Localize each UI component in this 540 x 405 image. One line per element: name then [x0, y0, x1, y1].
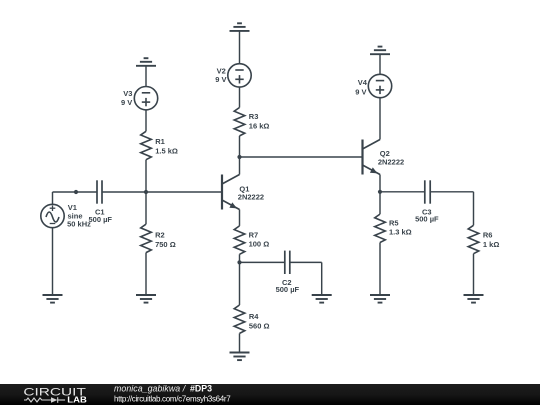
svg-text:750 Ω: 750 Ω [155, 240, 176, 249]
voltage source V2 [228, 64, 251, 87]
label R7 100 [249, 231, 270, 249]
svg-text:100 Ω: 100 Ω [249, 239, 270, 248]
transistor Q2 [363, 140, 381, 175]
wire corner down to R6 [473, 192, 475, 226]
label R6 1k [483, 231, 499, 250]
wire R6 to ground [473, 254, 475, 295]
capacitor C2 [285, 251, 290, 274]
label R5 1.3k [389, 218, 412, 236]
node junction at input [74, 190, 78, 194]
svg-text:R4: R4 [249, 312, 259, 321]
svg-text:R6: R6 [483, 231, 493, 240]
wire node D to R5 [379, 192, 381, 214]
wire row A junction to R2 [145, 192, 147, 224]
svg-text:R1: R1 [155, 137, 165, 146]
wire V2 to R3 [239, 87, 241, 107]
svg-text:500 µF: 500 µF [89, 215, 113, 224]
capacitor C3 [425, 180, 430, 203]
svg-text:#DP3: #DP3 [190, 383, 212, 393]
svg-text:9 V: 9 V [215, 75, 226, 84]
resistor R6 [468, 225, 479, 253]
ground below R6 [464, 295, 484, 303]
transistor Q1 [222, 175, 240, 210]
svg-text:V3: V3 [123, 89, 132, 98]
wire R4 to ground [239, 333, 241, 352]
wire node C to C2 [240, 261, 285, 263]
wire V1 bottom to ground [52, 228, 54, 295]
wire Q1 emitter to R7 [239, 210, 241, 226]
label V1 sine 50 kHz [67, 203, 91, 229]
label R1 1.5k [155, 137, 178, 155]
voltage source V3 [134, 87, 157, 110]
svg-text:560 Ω: 560 Ω [249, 321, 270, 330]
svg-text:R2: R2 [155, 231, 165, 240]
svg-text:9 V: 9 V [121, 98, 132, 107]
wire row A: C1 to Q1 base [102, 191, 222, 193]
label C2 500 uF [276, 278, 300, 294]
voltage source V4 [368, 74, 391, 97]
CircuitLab logo resistor-diode squiggle [24, 397, 65, 403]
label Q1 2N2222 [238, 185, 264, 202]
wire V3 to R1 [145, 110, 147, 131]
capacitor C1 [97, 180, 102, 203]
svg-text:1.5 kΩ: 1.5 kΩ [155, 146, 178, 155]
wire C3 to corner [430, 191, 473, 193]
wire R1 to row A junction [145, 160, 147, 192]
sine source V1 [41, 204, 64, 227]
ground below R4 [230, 353, 250, 361]
wire Q2 emitter to node D junction [379, 175, 381, 192]
wire C2 corner down to ground [321, 262, 323, 295]
wire V2 ground to circle [239, 31, 241, 64]
ground above V4 [370, 47, 390, 55]
ground below R2 [136, 295, 156, 303]
wire R7 to node C junction [239, 254, 241, 262]
label Q2 2N2222 [378, 149, 404, 166]
label R4 560 [249, 312, 270, 330]
ground below V1 [43, 295, 63, 303]
svg-text:2N2222: 2N2222 [378, 158, 404, 167]
svg-text:16 kΩ: 16 kΩ [249, 122, 270, 131]
svg-text:1 kΩ: 1 kΩ [483, 240, 499, 249]
resistor R4 [234, 305, 245, 333]
svg-text:1.3 kΩ: 1.3 kΩ [389, 227, 412, 236]
wire V1 top to row A [52, 192, 54, 204]
label V3 9V [121, 89, 132, 107]
svg-text:50 kHz: 50 kHz [67, 220, 91, 229]
wire R3 to node B junction [239, 136, 241, 157]
label R3 16k [249, 112, 270, 130]
node junction C at R7 bottom [237, 260, 241, 264]
resistor R2 [141, 224, 152, 252]
ground below C2 [312, 295, 332, 303]
footer bar [0, 384, 540, 405]
wire V3 ground to circle [145, 66, 147, 87]
ground above V3 [136, 58, 156, 66]
wire R5 to ground [379, 243, 381, 296]
label V4 9V [355, 78, 367, 96]
node junction at R2 top [144, 190, 148, 194]
wire V4 to Q2 collector [379, 98, 381, 140]
ground below R5 [370, 295, 390, 303]
svg-text:500 µF: 500 µF [276, 285, 300, 294]
wire V4 ground to circle [379, 54, 381, 74]
svg-text:http://circuitlab.com/c7emsyh3: http://circuitlab.com/c7emsyh3s64r7 [114, 394, 231, 403]
wire node B to Q1 collector [239, 157, 241, 175]
label R2 750 [155, 231, 176, 249]
svg-text:2N2222: 2N2222 [238, 193, 264, 202]
svg-text:V4: V4 [358, 78, 368, 87]
wire node C to R4 [239, 262, 241, 305]
wire R2 to ground [145, 253, 147, 295]
label C1 500 uF [89, 207, 113, 223]
ground above V2 [230, 23, 250, 31]
resistor R7 [234, 226, 245, 254]
svg-text:V2: V2 [217, 66, 226, 75]
wire C2 to corner [290, 261, 322, 263]
svg-text:R5: R5 [389, 218, 399, 227]
wire row D: node D to C3 [380, 191, 425, 193]
node junction B at Q1 collector [237, 155, 241, 159]
resistor R1 [141, 131, 152, 159]
svg-text:R7: R7 [249, 231, 259, 240]
svg-text:9 V: 9 V [355, 87, 366, 96]
label V2 9V [215, 66, 226, 84]
label C3 500 uF [415, 208, 439, 224]
resistor R5 [375, 214, 386, 242]
node junction D at Q2 emitter [378, 190, 382, 194]
svg-text:500 µF: 500 µF [415, 215, 439, 224]
svg-text:LAB: LAB [67, 395, 87, 405]
resistor R3 [234, 108, 245, 136]
wire row A: V1 to C1 [53, 191, 98, 193]
svg-text:R3: R3 [249, 112, 259, 121]
svg-text:monica_gabikwa /: monica_gabikwa / [114, 383, 187, 393]
wire row B: node B to Q2 base [240, 156, 363, 158]
